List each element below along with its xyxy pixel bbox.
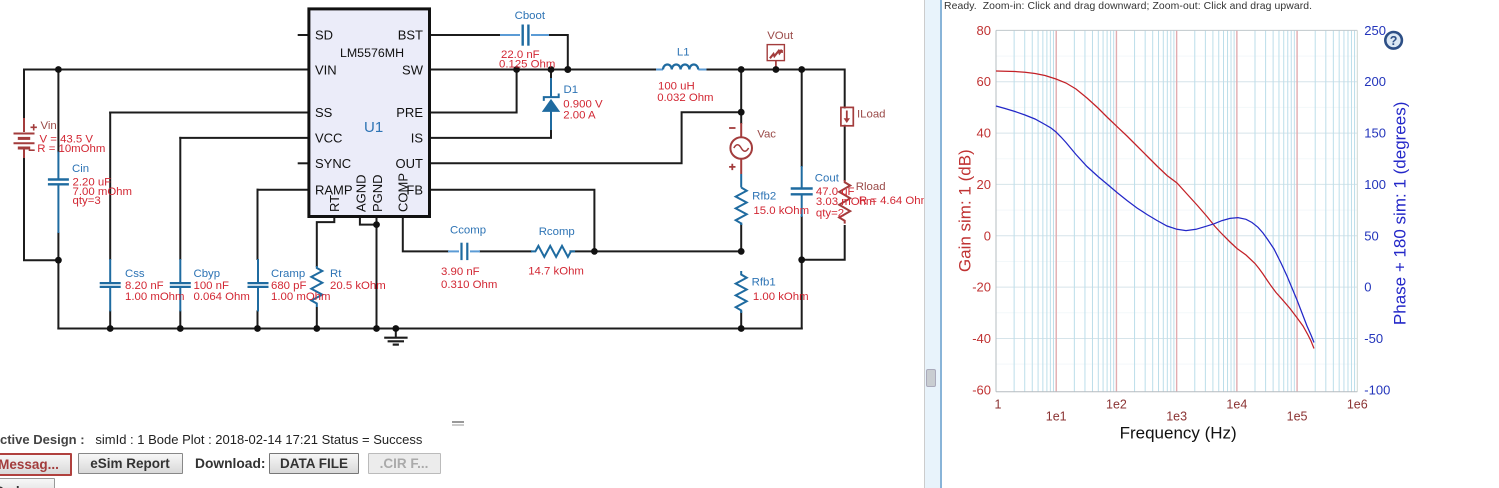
- svg-text:-20: -20: [972, 280, 991, 295]
- svg-text:SD: SD: [315, 28, 333, 43]
- svg-text:100: 100: [1364, 177, 1386, 192]
- svg-text:Rfb2: Rfb2: [752, 191, 776, 203]
- svg-text:Vin: Vin: [41, 120, 57, 132]
- svg-text:qty=2: qty=2: [816, 207, 844, 219]
- svg-text:SW: SW: [402, 63, 424, 78]
- svg-text:1.00 mOhm: 1.00 mOhm: [125, 291, 185, 303]
- svg-text:Rfb1: Rfb1: [752, 277, 776, 289]
- svg-text:-100: -100: [1364, 382, 1390, 397]
- svg-text:AGND: AGND: [353, 174, 368, 212]
- svg-text:LM5576MH: LM5576MH: [340, 46, 404, 60]
- svg-text:680 pF: 680 pF: [271, 280, 307, 292]
- svg-text:3.03 mOhm: 3.03 mOhm: [816, 196, 876, 208]
- svg-text:1e4: 1e4: [1226, 398, 1247, 412]
- svg-text:Cboot: Cboot: [515, 10, 546, 22]
- svg-text:0.064 Ohm: 0.064 Ohm: [194, 291, 250, 303]
- svg-text:1e2: 1e2: [1106, 398, 1127, 412]
- svg-text:0.032 Ohm: 0.032 Ohm: [657, 92, 713, 104]
- svg-text:100 uH: 100 uH: [658, 81, 695, 93]
- svg-text:40: 40: [977, 126, 991, 141]
- svg-text:Css: Css: [125, 268, 145, 280]
- svg-text:100 nF: 100 nF: [194, 280, 230, 292]
- svg-text:0.125 Ohm: 0.125 Ohm: [499, 59, 555, 71]
- svg-text:?: ?: [1390, 34, 1398, 48]
- svg-text:-60: -60: [972, 382, 991, 397]
- svg-text:0.310 Ohm: 0.310 Ohm: [441, 279, 497, 291]
- svg-text:1e5: 1e5: [1287, 410, 1308, 424]
- svg-text:Phase + 180 sim: 1 (degrees): Phase + 180 sim: 1 (degrees): [1390, 102, 1409, 325]
- svg-text:Rcomp: Rcomp: [539, 226, 575, 238]
- svg-text:Gain sim: 1 (dB): Gain sim: 1 (dB): [955, 149, 974, 272]
- svg-text:8.20 nF: 8.20 nF: [125, 280, 164, 292]
- svg-text:U1: U1: [364, 119, 383, 136]
- svg-text:1e3: 1e3: [1166, 410, 1187, 424]
- svg-text:50: 50: [1364, 228, 1378, 243]
- svg-text:Cramp: Cramp: [271, 268, 305, 280]
- svg-text:PGND: PGND: [370, 174, 385, 212]
- svg-text:Frequency (Hz): Frequency (Hz): [1120, 424, 1237, 443]
- svg-text:Ccomp: Ccomp: [450, 225, 486, 237]
- svg-text:L1: L1: [677, 47, 690, 59]
- svg-text:60: 60: [977, 74, 991, 89]
- svg-text:Vac: Vac: [757, 128, 776, 140]
- svg-text:14.7 kOhm: 14.7 kOhm: [528, 266, 584, 278]
- svg-text:SS: SS: [315, 105, 333, 120]
- svg-text:SYNC: SYNC: [315, 156, 351, 171]
- svg-text:OUT: OUT: [396, 156, 424, 171]
- svg-text:-50: -50: [1364, 331, 1383, 346]
- svg-text:Rt: Rt: [330, 268, 342, 280]
- svg-text:1: 1: [995, 398, 1002, 412]
- svg-text:1e6: 1e6: [1347, 398, 1368, 412]
- svg-text:1.00 kOhm: 1.00 kOhm: [753, 291, 809, 303]
- svg-text:IS: IS: [411, 131, 424, 146]
- svg-text:0: 0: [1364, 280, 1371, 295]
- svg-text:1.00 mOhm: 1.00 mOhm: [271, 291, 331, 303]
- svg-text:ILoad: ILoad: [857, 108, 886, 120]
- svg-text:COMP: COMP: [395, 173, 410, 212]
- svg-text:RT: RT: [327, 195, 342, 212]
- svg-text:BST: BST: [398, 28, 423, 43]
- svg-text:VCC: VCC: [315, 131, 342, 146]
- svg-text:1e1: 1e1: [1046, 410, 1067, 424]
- svg-text:200: 200: [1364, 74, 1386, 89]
- svg-text:Cin: Cin: [72, 163, 89, 175]
- svg-text:20: 20: [977, 177, 991, 192]
- svg-text:2.00 A: 2.00 A: [563, 110, 596, 122]
- svg-text:20.5 kOhm: 20.5 kOhm: [330, 280, 386, 292]
- svg-text:VIN: VIN: [315, 63, 337, 78]
- svg-text:Cout: Cout: [815, 173, 840, 185]
- svg-text:qty=3: qty=3: [73, 195, 101, 207]
- svg-text:Rload: Rload: [856, 181, 886, 193]
- svg-text:Cbyp: Cbyp: [194, 268, 221, 280]
- svg-text:80: 80: [977, 23, 991, 38]
- svg-text:250: 250: [1364, 23, 1386, 38]
- svg-text:15.0 kOhm: 15.0 kOhm: [753, 205, 809, 217]
- svg-text:PRE: PRE: [396, 105, 423, 120]
- svg-text:D1: D1: [564, 84, 579, 96]
- svg-text:150: 150: [1364, 126, 1386, 141]
- svg-text:3.90 nF: 3.90 nF: [441, 266, 480, 278]
- svg-text:R = 10mOhm: R = 10mOhm: [37, 143, 105, 155]
- svg-text:0: 0: [984, 228, 991, 243]
- svg-text:-40: -40: [972, 331, 991, 346]
- svg-text:VOut: VOut: [767, 30, 794, 42]
